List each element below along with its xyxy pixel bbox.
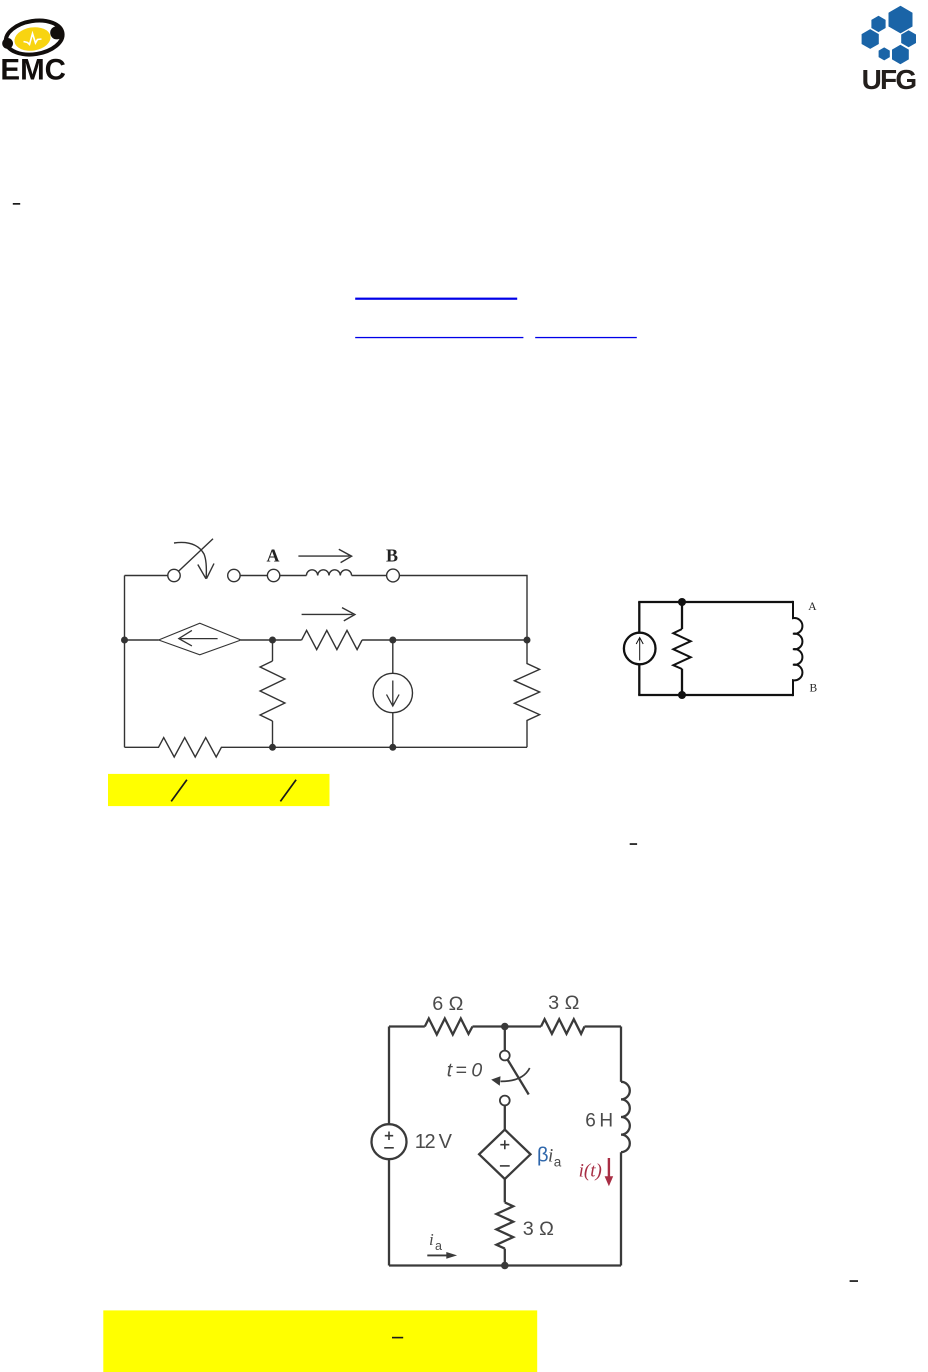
svg-text:t = 0: t = 0 bbox=[447, 1060, 483, 1082]
inductor 6H (arcs bulge right) bbox=[621, 1082, 630, 1152]
switch t0 motion arrowhead bbox=[491, 1076, 500, 1086]
EMC logo satellite dot right bbox=[50, 26, 63, 39]
EMC logo bbox=[0, 17, 66, 87]
wire: left rail down bbox=[124, 576, 126, 748]
dash mark in box 2 bbox=[392, 1337, 403, 1339]
voltage source plus bbox=[385, 1132, 393, 1141]
svg-text:EMC: EMC bbox=[0, 54, 66, 87]
node dot norton bottom bbox=[678, 691, 686, 699]
svg-text:B: B bbox=[386, 546, 398, 566]
svg-text:i: i bbox=[429, 1230, 434, 1249]
node dot c3 top bbox=[501, 1023, 509, 1031]
svg-text:A: A bbox=[808, 601, 817, 613]
EMC logo satellite dot left bbox=[2, 38, 13, 49]
wire: c3 top rail right segment bbox=[585, 1025, 622, 1027]
EMC logo orbit ring bbox=[3, 17, 65, 59]
wire: resistor branch top stub bbox=[681, 602, 683, 629]
wire: norton top rail bbox=[638, 601, 793, 603]
wire: c3 right rail lower bbox=[620, 1152, 622, 1265]
node dot mid-right bbox=[524, 637, 531, 644]
inductor LN (right, arcs bulge right) bbox=[793, 601, 802, 696]
svg-text:3 Ω: 3 Ω bbox=[548, 992, 579, 1014]
hyperlink underline 2b bbox=[535, 337, 637, 338]
svg-text:a: a bbox=[554, 1155, 562, 1170]
svg-text:A: A bbox=[267, 546, 280, 566]
switch stub from top node bbox=[504, 1027, 506, 1051]
current source IN circle bbox=[624, 633, 656, 665]
wire: c3 top rail left of R6 bbox=[389, 1025, 425, 1027]
node dot mid-2 bbox=[389, 637, 396, 644]
highlight box 1 bbox=[108, 774, 330, 806]
switch t0 blade bbox=[508, 1060, 529, 1095]
voltage source minus bbox=[384, 1147, 394, 1149]
svg-text:i: i bbox=[548, 1146, 553, 1167]
switch t0 lower terminal bbox=[500, 1096, 510, 1106]
dependent source plus bbox=[500, 1140, 509, 1149]
hyperlink underline 1 bbox=[355, 298, 517, 300]
stray hyphen mid-page bbox=[630, 843, 637, 845]
switch t0 upper terminal bbox=[500, 1051, 510, 1061]
highlight box 2 bbox=[103, 1310, 537, 1372]
stray hyphen top-left bbox=[13, 203, 20, 205]
inductor L1 bbox=[306, 570, 351, 576]
wire: switch to diamond bbox=[504, 1105, 506, 1129]
wire: resistor branch bottom stub bbox=[681, 669, 683, 695]
switch S1 pole terminal bbox=[168, 569, 180, 581]
UFG hexagon small top-left bbox=[871, 16, 885, 32]
switch S1 throw terminal bbox=[228, 569, 240, 581]
resistor R3 (vertical) bbox=[260, 661, 285, 721]
svg-text:UFG: UFG bbox=[862, 64, 917, 95]
wire: branch down from node mid-1 bbox=[272, 640, 274, 661]
wire: branch down from node mid-2 bbox=[392, 640, 394, 673]
wire: throw to node A bbox=[240, 575, 267, 577]
svg-text:B: B bbox=[810, 683, 818, 695]
svg-text:6 H: 6 H bbox=[585, 1111, 612, 1132]
stray hyphen bottom-right bbox=[850, 1280, 858, 1282]
dependent source E1 diamond bbox=[159, 623, 241, 655]
dependent source E1 arrow bbox=[179, 630, 218, 646]
slash mark 2 in box 1 bbox=[280, 780, 296, 802]
wire: I1 to bottom rail bbox=[392, 713, 394, 748]
svg-text:a: a bbox=[435, 1239, 442, 1253]
label ia bbox=[429, 1230, 442, 1253]
wire: diamond to mid node 1 bbox=[241, 639, 302, 641]
node B terminal circle bbox=[387, 569, 400, 582]
UFG hexagon left bbox=[862, 29, 879, 49]
current arrow i(t) red head bbox=[605, 1176, 614, 1186]
node A terminal circle bbox=[267, 569, 279, 581]
node dot bottom-1 bbox=[269, 744, 276, 751]
svg-text:6 Ω: 6 Ω bbox=[432, 993, 463, 1015]
node dot mid-1 bbox=[269, 637, 276, 644]
svg-text:i(t): i(t) bbox=[579, 1160, 602, 1181]
slash mark 1 in box 1 bbox=[171, 780, 187, 802]
wire: c3 left rail lower bbox=[388, 1159, 390, 1265]
UFG hexagon bottom-right bbox=[892, 45, 909, 64]
resistor R2 (mid horizontal) bbox=[302, 630, 363, 649]
wire: norton bottom rail bbox=[638, 694, 793, 696]
current source IN arrow bbox=[636, 638, 643, 661]
resistor 6ohm bbox=[425, 1019, 473, 1035]
wire: c3 top rail between resistors bbox=[473, 1025, 542, 1027]
UFG hexagon large top-right bbox=[889, 6, 913, 34]
wire: c3 right rail upper bbox=[620, 1027, 622, 1082]
wire: R2 to right rail bbox=[362, 639, 527, 641]
svg-text:3 Ω: 3 Ω bbox=[523, 1218, 554, 1240]
wire: circuit1 top rail left segment bbox=[125, 575, 168, 577]
wire: c3 left rail upper bbox=[388, 1027, 390, 1125]
current arrow ia head bbox=[446, 1252, 457, 1259]
dependent source beta-ia diamond bbox=[479, 1130, 530, 1179]
EMC logo yellow core bbox=[13, 25, 53, 54]
wire: R3 to bottom rail bbox=[272, 721, 274, 747]
hyperlink underline 2a bbox=[355, 337, 523, 338]
wire: diamond to resistor bbox=[504, 1179, 506, 1202]
wire: c3 bottom rail bbox=[389, 1264, 621, 1266]
label beta ia bbox=[537, 1145, 562, 1170]
wire: resistor to bottom rail bbox=[504, 1249, 506, 1266]
node dot norton top bbox=[678, 598, 686, 606]
node dot c3 bottom bbox=[501, 1262, 509, 1270]
svg-text:12 V: 12 V bbox=[415, 1131, 453, 1153]
node dot mid-left bbox=[121, 637, 128, 644]
dependent source minus bbox=[500, 1165, 510, 1167]
current source I1 circle bbox=[373, 673, 412, 712]
voltage source 12V circle bbox=[372, 1124, 407, 1159]
resistor RN (vertical) bbox=[673, 629, 690, 669]
wire: node A to inductor bbox=[280, 575, 307, 577]
wire: node B to top-right corner and down bbox=[399, 576, 527, 641]
current arrow above R2 bbox=[302, 608, 355, 621]
resistor R4 (right vertical) bbox=[514, 640, 539, 747]
current arrow i(t) red shaft bbox=[608, 1158, 610, 1179]
current arrow above L1 bbox=[298, 549, 351, 562]
wire: inductor to node B bbox=[352, 575, 387, 577]
resistor 3ohm top bbox=[541, 1019, 584, 1034]
wire: mid rail left to diamond bbox=[125, 639, 159, 641]
wire: norton left rail bbox=[638, 602, 640, 695]
bottom rail with resistor R5 bbox=[125, 738, 528, 757]
switch S1 blade bbox=[179, 539, 214, 571]
switch t0 motion arrow bbox=[501, 1068, 530, 1081]
UFG hexagon right bbox=[901, 30, 916, 47]
switch S1 motion arrow bbox=[174, 542, 214, 578]
node dot bottom-2 bbox=[389, 744, 396, 751]
current source I1 arrow bbox=[387, 681, 400, 707]
resistor 3ohm vertical bbox=[496, 1202, 513, 1248]
current arrow ia shaft bbox=[427, 1254, 448, 1256]
svg-text:β: β bbox=[537, 1145, 549, 1167]
EMC logo pulse trace bbox=[24, 34, 42, 45]
UFG logo bbox=[862, 6, 917, 95]
UFG hexagon small bottom bbox=[879, 47, 890, 60]
